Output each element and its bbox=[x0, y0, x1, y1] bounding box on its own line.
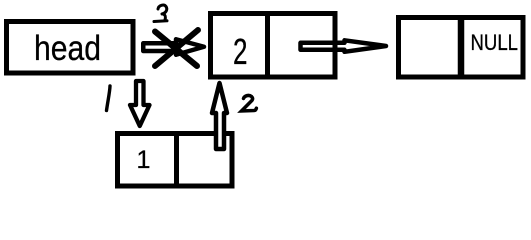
svg-text:NULL: NULL bbox=[471, 30, 519, 55]
svg-text:2: 2 bbox=[233, 31, 248, 72]
svg-text:head: head bbox=[34, 29, 101, 68]
svg-text:1: 1 bbox=[137, 146, 151, 174]
